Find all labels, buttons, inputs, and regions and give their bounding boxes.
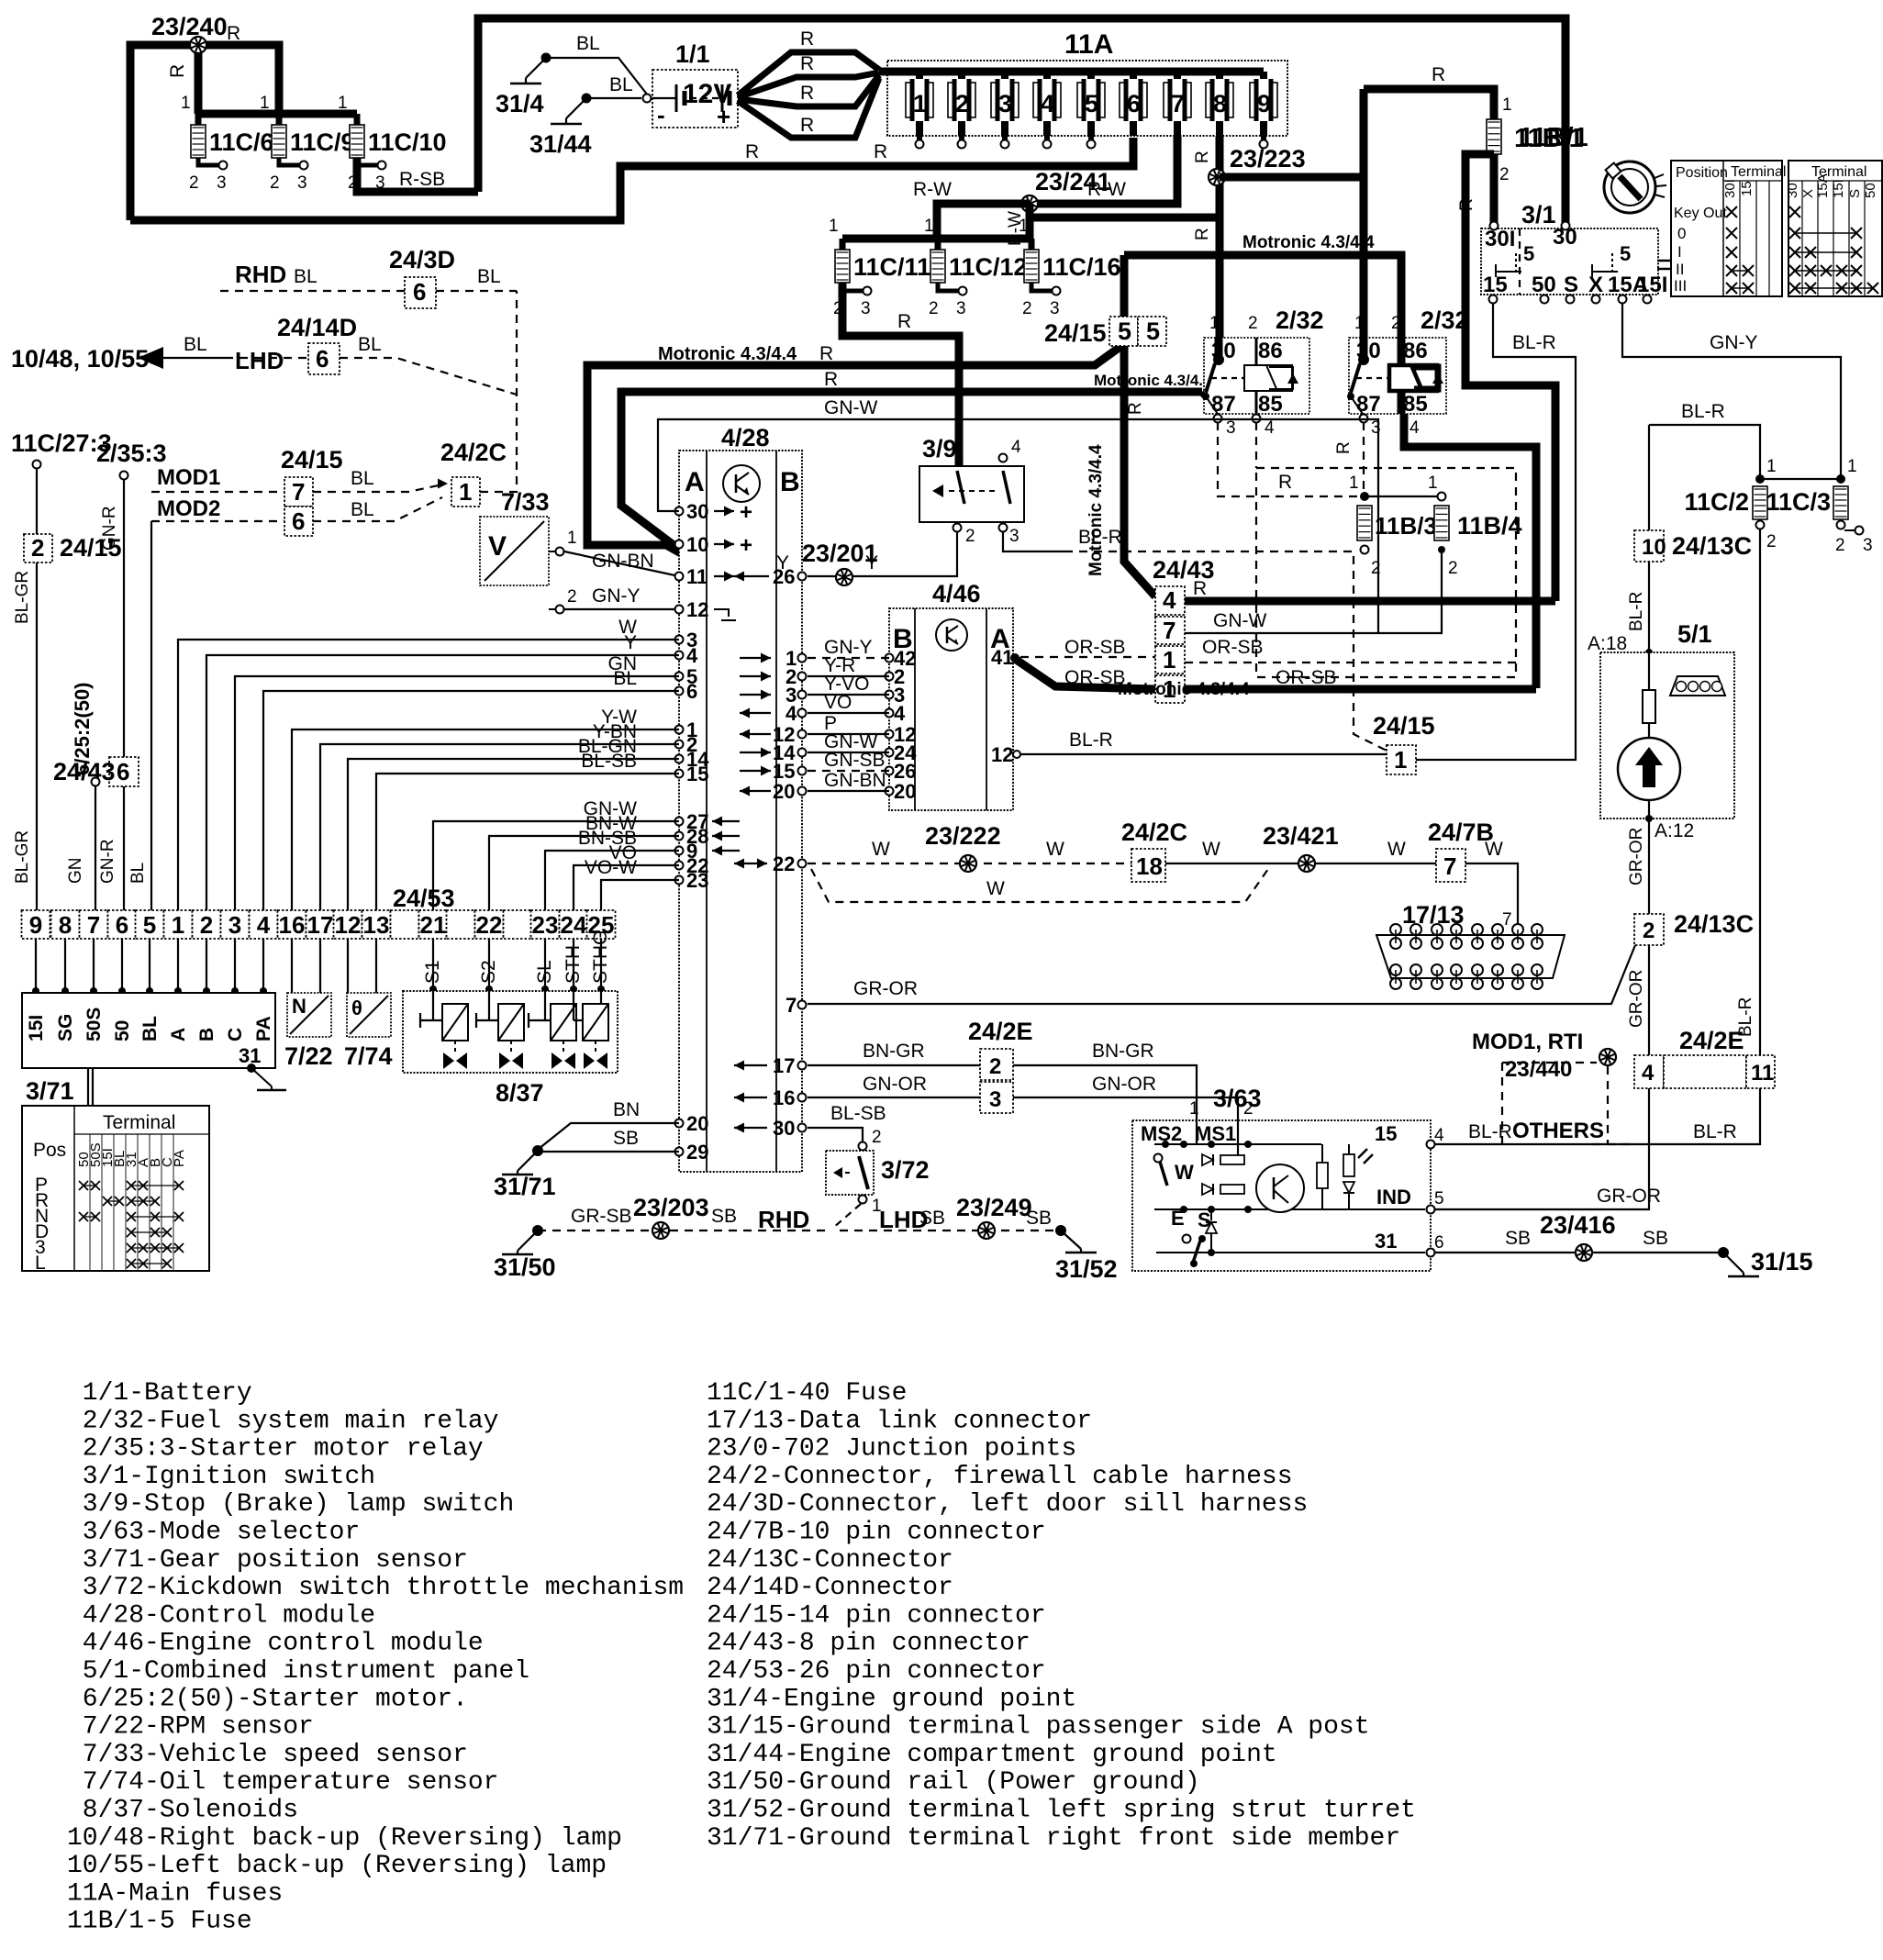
svg-text:30I: 30I (1722, 179, 1738, 198)
svg-text:3/63: 3/63 (1213, 1085, 1262, 1112)
svg-text:3/71-Gear position sensor: 3/71-Gear position sensor (67, 1546, 468, 1575)
svg-text:C: C (225, 1028, 246, 1041)
svg-text:41: 41 (991, 646, 1013, 669)
svg-text:2: 2 (872, 1128, 882, 1147)
wire 23/241 down to 11C/16 (1026, 204, 1034, 239)
svg-text:6/25:2(50): 6/25:2(50) (71, 682, 94, 775)
ground 31/44 (529, 74, 641, 158)
svg-text:L: L (35, 1253, 46, 1274)
wire GN-Y 7/33-2 (564, 585, 679, 609)
svg-text:2/32-Fuel system main relay: 2/32-Fuel system main relay (67, 1407, 498, 1435)
svg-text:1: 1 (913, 90, 927, 117)
svg-text:15A: 15A (1815, 173, 1831, 198)
fuse 11C/3 (1766, 486, 1872, 555)
kickdown switch 3/72 (826, 1128, 930, 1216)
connector 24/43 (1153, 556, 1215, 703)
wire battery feed fan R (738, 28, 879, 138)
svg-text:17: 17 (773, 1054, 795, 1077)
svg-text:V: V (488, 531, 507, 562)
fuse 11B/1 (1364, 64, 1588, 184)
svg-text:R-SB: R-SB (399, 169, 445, 190)
svg-text:12: 12 (686, 598, 708, 621)
junction 23/201 (802, 540, 878, 585)
oil temperature sensor 7/74 (344, 993, 393, 1070)
svg-text:31/71-Ground terminal right fr: 31/71-Ground terminal right front side m… (707, 1824, 1400, 1853)
svg-text:6: 6 (686, 680, 697, 703)
wire RHD dashed (220, 261, 517, 291)
wire 24/15-5 down to 24/43-4 (1086, 255, 1155, 596)
svg-text:1: 1 (829, 217, 839, 236)
data link connector 17/13 (1376, 901, 1565, 989)
svg-text:7/22-RPM sensor: 7/22-RPM sensor (67, 1713, 314, 1742)
svg-text:21: 21 (420, 911, 447, 939)
svg-text:10/48-Right back-up (Reversing: 10/48-Right back-up (Reversing) lamp (67, 1824, 622, 1853)
junction 23/241 (1021, 168, 1111, 212)
svg-text:2: 2 (1391, 314, 1401, 333)
svg-text:6: 6 (1434, 1233, 1444, 1253)
wire BL MOD2 column (128, 521, 151, 910)
svg-text:11B/1-5 Fuse: 11B/1-5 Fuse (67, 1908, 252, 1936)
wire top rail to ignition 30 (478, 18, 1565, 224)
svg-text:I: I (1677, 243, 1682, 261)
svg-text:R: R (874, 141, 887, 162)
svg-text:GR-OR: GR-OR (1597, 1186, 1661, 1207)
svg-text:24/15: 24/15 (1373, 712, 1435, 740)
svg-text:2: 2 (929, 299, 939, 318)
svg-text:10/55-Left back-up (Reversing): 10/55-Left back-up (Reversing) lamp (67, 1852, 607, 1880)
svg-text:R: R (1193, 150, 1212, 163)
svg-text:4: 4 (257, 911, 271, 939)
wires 24/53 to RPM and temp sensors (292, 939, 376, 993)
svg-text:BL: BL (294, 266, 318, 287)
svg-text:11: 11 (686, 565, 708, 588)
svg-text:24/2E: 24/2E (968, 1018, 1033, 1045)
svg-text:MOD2: MOD2 (157, 496, 220, 521)
ground 31/71 (494, 1145, 556, 1200)
svg-text:17: 17 (307, 911, 334, 939)
svg-text:12: 12 (991, 743, 1013, 766)
svg-text:85: 85 (1258, 392, 1283, 417)
svg-text:23/416: 23/416 (1540, 1211, 1616, 1239)
svg-text:11A: 11A (1064, 29, 1113, 60)
connector 24/15 pin1 (1373, 712, 1435, 774)
svg-text:20: 20 (894, 780, 916, 803)
svg-text:31/4-Engine ground point: 31/4-Engine ground point (707, 1685, 1076, 1713)
svg-text:SG: SG (55, 1014, 76, 1041)
wire fuse bus 11C/6-10 (181, 94, 357, 114)
wire R dashed relay2-87 (1334, 422, 1364, 492)
svg-text:OTHERS: OTHERS (1512, 1119, 1604, 1143)
svg-text:PA: PA (253, 1016, 274, 1041)
svg-text:1: 1 (924, 217, 934, 236)
svg-text:2/35:3-Starter motor relay: 2/35:3-Starter motor relay (67, 1435, 484, 1464)
wires 24/53 to gear sensor 3/71 (32, 939, 267, 995)
svg-text:R: R (1126, 402, 1145, 415)
svg-text:BL-R: BL-R (1468, 1121, 1512, 1142)
junction 23/416 (1540, 1211, 1616, 1261)
wire OR-SB dashed 24/43-1 (1020, 637, 1516, 663)
svg-text:Motronic 4.3/4.4: Motronic 4.3/4.4 (658, 344, 797, 364)
svg-text:1: 1 (1349, 473, 1359, 493)
svg-text:W: W (1046, 839, 1064, 860)
svg-text:15: 15 (686, 763, 708, 785)
wire GN-R 2/35:3 down (98, 480, 124, 910)
wire Motronic 4.3/4.4 rail (587, 343, 1121, 553)
svg-text:22: 22 (476, 911, 503, 939)
wire SB 3/63-31 to ground (1434, 1228, 1720, 1253)
svg-text:7: 7 (1502, 910, 1512, 930)
svg-text:8/37-Solenoids: 8/37-Solenoids (67, 1797, 298, 1825)
svg-text:2: 2 (567, 587, 577, 607)
svg-text:7: 7 (1163, 617, 1175, 644)
relay 2/32 fuel system main relay #1 (1202, 306, 1324, 438)
svg-text:2: 2 (1766, 532, 1777, 551)
svg-text:R: R (824, 369, 838, 390)
svg-text:3: 3 (1863, 536, 1873, 555)
svg-text:X: X (1588, 273, 1603, 297)
svg-text:GN-SB: GN-SB (824, 750, 886, 771)
svg-text:R: R (227, 23, 240, 44)
fuse 11A:1 (906, 72, 933, 149)
svg-text:3: 3 (228, 911, 241, 939)
svg-text:7/33: 7/33 (501, 488, 550, 516)
gear position table (22, 1106, 209, 1274)
svg-text:W: W (986, 878, 1005, 899)
mode selector 3/63 (1132, 1085, 1444, 1271)
svg-text:23/203: 23/203 (633, 1194, 709, 1221)
svg-text:II: II (1676, 261, 1684, 278)
svg-text:3/72-Kickdown switch throttle: 3/72-Kickdown switch throttle mechanism (67, 1574, 684, 1602)
connector 24/15 pins 7-6 (281, 446, 343, 536)
terminals 4/28-B (773, 565, 807, 1140)
svg-text:11C/6: 11C/6 (209, 128, 274, 156)
svg-text:7: 7 (786, 994, 797, 1017)
wire GR-OR panel to 24/13C-2 (1627, 819, 1694, 914)
svg-text:4: 4 (786, 702, 797, 725)
svg-text:31/71: 31/71 (494, 1173, 556, 1200)
svg-text:BL: BL (351, 499, 374, 520)
svg-text:5: 5 (1620, 242, 1631, 265)
wire 11C second fuse bus (829, 217, 1031, 239)
ignition key symbol (1604, 161, 1671, 269)
svg-text:11B/3: 11B/3 (1375, 512, 1437, 540)
wire MOD2 dashed (151, 496, 284, 521)
svg-text:A: A (685, 467, 705, 497)
wire 11A bus (879, 68, 1264, 76)
svg-text:W: W (1387, 839, 1406, 860)
svg-text:GR-OR: GR-OR (1627, 970, 1646, 1028)
svg-text:15I: 15I (1831, 179, 1846, 198)
svg-text:+: + (740, 533, 752, 558)
svg-text:W: W (1485, 839, 1503, 860)
wire OR-SB thick Motronic (1064, 667, 1536, 699)
svg-text:3/1-Ignition switch: 3/1-Ignition switch (67, 1463, 375, 1491)
svg-text:STH: STH (563, 945, 584, 984)
fuse 11A:5 (1077, 72, 1105, 149)
fuse 11A:6 (1120, 72, 1147, 136)
svg-text:A:18: A:18 (1588, 633, 1627, 654)
svg-text:4/46: 4/46 (932, 580, 981, 607)
node 10/48 10/55 arrow (11, 334, 225, 373)
svg-text:6: 6 (117, 758, 129, 785)
svg-text:30: 30 (1356, 339, 1381, 363)
svg-text:S2: S2 (478, 960, 499, 984)
junction 23/240 (151, 13, 240, 114)
fuse 11B/3 (1349, 473, 1437, 578)
svg-text:6: 6 (292, 507, 305, 535)
svg-text:86: 86 (1403, 339, 1428, 363)
svg-text:4/28-Control module: 4/28-Control module (67, 1601, 375, 1630)
svg-text:OR-SB: OR-SB (1064, 637, 1126, 658)
svg-text:GN-W: GN-W (824, 397, 877, 418)
svg-text:50: 50 (112, 1020, 133, 1041)
svg-text:W: W (1175, 1161, 1194, 1184)
svg-text:S: S (1564, 273, 1578, 297)
svg-text:24/13C: 24/13C (1674, 910, 1754, 938)
wire dashed 24/2C to sill harness (480, 291, 517, 492)
svg-text:1/1-Battery: 1/1-Battery (67, 1379, 252, 1408)
wire GN-OR (808, 1074, 1253, 1120)
svg-text:24/43-8 pin connector: 24/43-8 pin connector (707, 1630, 1031, 1658)
control module 4/28 (679, 424, 802, 1172)
svg-text:7: 7 (87, 911, 100, 939)
svg-text:2: 2 (1022, 299, 1032, 318)
svg-text:MS2: MS2 (1141, 1122, 1182, 1145)
svg-text:VO: VO (824, 692, 852, 713)
svg-text:SB: SB (1026, 1208, 1052, 1229)
svg-text:23: 23 (686, 869, 708, 892)
junction 23/223 (1209, 145, 1306, 185)
svg-text:4: 4 (1409, 418, 1420, 438)
svg-text:6: 6 (316, 345, 329, 373)
wire LHD dashed (225, 334, 517, 395)
svg-text:30I: 30I (1485, 227, 1515, 251)
wire 3/71 to position table (88, 1068, 93, 1106)
svg-text:MS1: MS1 (1195, 1122, 1236, 1145)
svg-text:3: 3 (989, 1087, 1001, 1112)
wire W dashed lower branch (811, 869, 1268, 902)
svg-text:23/223: 23/223 (1230, 145, 1306, 173)
svg-text:10: 10 (1642, 535, 1666, 560)
wire fuse8 down to relay 30 (1193, 136, 1220, 360)
wire BL-R 24/15 to ignition 15 (1416, 303, 1576, 760)
svg-text:1: 1 (1019, 217, 1029, 236)
svg-text:87: 87 (1356, 392, 1381, 417)
wire GN-Y ignition 15A (1622, 303, 1841, 475)
svg-text:BL: BL (576, 33, 600, 54)
svg-text:5: 5 (1523, 242, 1534, 265)
svg-text:GN-BN: GN-BN (592, 551, 654, 572)
wire GR-OR long to module B7 (808, 945, 1646, 1028)
fusebox 11A (887, 29, 1287, 136)
vehicle speed sensor 7/33 (480, 488, 577, 614)
wire GN-W 11B/4 to 24/43-7 (1185, 550, 1442, 633)
wire main feed loop top-left (130, 45, 279, 220)
wire BL-R down right side (1736, 529, 1760, 1055)
svg-text:OR-SB: OR-SB (1202, 637, 1264, 658)
svg-text:R: R (1193, 578, 1207, 599)
svg-text:11C/12: 11C/12 (949, 253, 1028, 281)
svg-text:23/0-702 Junction points: 23/0-702 Junction points (707, 1435, 1076, 1464)
svg-text:Y: Y (776, 552, 789, 574)
svg-text:23/241: 23/241 (1035, 168, 1111, 195)
svg-text:1: 1 (459, 478, 472, 506)
svg-text:24/3D: 24/3D (389, 246, 455, 273)
svg-text:3/72: 3/72 (881, 1156, 930, 1184)
svg-text:BN-GR: BN-GR (1092, 1041, 1154, 1062)
svg-text:2: 2 (1643, 919, 1655, 943)
solenoids 8/37 (403, 991, 618, 1107)
svg-text:24/14D-Connector: 24/14D-Connector (707, 1574, 953, 1602)
svg-text:BL: BL (139, 1016, 161, 1041)
wire fuse7 R-W to 23/241 (913, 136, 1177, 246)
connector 24/43 pin6 (53, 757, 139, 786)
svg-text:LHD: LHD (235, 347, 284, 374)
svg-text:VO-W: VO-W (585, 857, 637, 878)
connector 24/15 5-5 (1044, 317, 1166, 347)
svg-text:9: 9 (29, 911, 42, 939)
svg-text:6: 6 (1127, 90, 1141, 117)
svg-text:11C/9: 11C/9 (290, 128, 355, 156)
svg-text:24/13C: 24/13C (1672, 532, 1752, 560)
stop lamp switch 3/9 (919, 435, 1024, 546)
svg-text:85: 85 (1403, 392, 1428, 417)
svg-text:1: 1 (1209, 314, 1220, 333)
svg-text:A:12: A:12 (1655, 820, 1694, 841)
wire R-W branch to 11C/12 (937, 204, 1030, 239)
svg-text:1: 1 (338, 94, 348, 113)
svg-text:7/22: 7/22 (284, 1042, 333, 1070)
connector 24/2E (1634, 1027, 1775, 1088)
svg-text:11C/16: 11C/16 (1042, 253, 1121, 281)
svg-text:4: 4 (1041, 90, 1054, 117)
connector 24/13C pin2 (1634, 910, 1754, 945)
svg-text:3/9: 3/9 (922, 435, 957, 462)
wire BN-GR (808, 1041, 1199, 1120)
svg-text:23/240: 23/240 (151, 13, 228, 40)
svg-text:31: 31 (1375, 1230, 1397, 1253)
svg-text:24/2-Connector, firewall cable: 24/2-Connector, firewall cable harness (707, 1463, 1293, 1491)
RPM sensor 7/22 (284, 993, 333, 1070)
svg-text:3: 3 (998, 90, 1012, 117)
fuse 11C/16 (1022, 239, 1121, 318)
svg-text:11C/3: 11C/3 (1766, 488, 1831, 516)
svg-text:RHD: RHD (758, 1206, 809, 1233)
wire 3/9-3 BL-R (1003, 532, 1064, 551)
svg-text:BL-R: BL-R (1627, 592, 1646, 631)
svg-text:-: - (657, 101, 665, 128)
svg-text:2: 2 (270, 173, 280, 193)
battery 1/1 (643, 40, 739, 130)
svg-text:BL: BL (358, 334, 382, 355)
svg-text:16: 16 (279, 911, 306, 939)
svg-text:+: + (717, 103, 730, 130)
svg-text:SB: SB (1643, 1228, 1668, 1249)
svg-text:BL: BL (128, 863, 148, 884)
wire GN-W speedometer (658, 397, 1378, 633)
svg-text:2: 2 (955, 90, 969, 117)
svg-text:R: R (1278, 472, 1292, 493)
wires 24/53 to solenoids 8/37 (422, 930, 611, 993)
svg-text:31/4: 31/4 (496, 90, 544, 117)
svg-text:2/32: 2/32 (1276, 306, 1324, 334)
wire W 24/2C to 24/7B (1165, 839, 1436, 863)
wire BL-SB to kickdown (808, 1103, 886, 1151)
svg-text:R: R (800, 28, 814, 50)
svg-text:OR-SB: OR-SB (1276, 667, 1337, 688)
svg-text:B: B (196, 1028, 217, 1041)
svg-text:1: 1 (1428, 473, 1438, 493)
svg-text:R: R (800, 53, 814, 74)
svg-text:5/1-Combined instrument panel: 5/1-Combined instrument panel (67, 1657, 529, 1686)
svg-text:29: 29 (686, 1141, 708, 1164)
svg-text:GN-R: GN-R (100, 506, 119, 551)
svg-text:1: 1 (567, 529, 577, 548)
junction 23/203 (652, 1222, 669, 1239)
wire SB A29 to ground (539, 1128, 679, 1152)
svg-text:BL: BL (351, 468, 374, 489)
wire relay2-85 OR-SB to firewall (1404, 414, 1536, 688)
svg-text:1: 1 (1189, 1099, 1199, 1119)
svg-text:BL-R: BL-R (1693, 1121, 1737, 1142)
svg-text:Motronic 4.3/4.4: Motronic 4.3/4.4 (1242, 233, 1375, 252)
svg-text:9: 9 (1257, 90, 1271, 117)
svg-text:15I: 15I (26, 1015, 47, 1041)
svg-text:2: 2 (965, 527, 975, 546)
svg-text:24: 24 (561, 911, 587, 939)
svg-text:86: 86 (1258, 339, 1283, 363)
svg-text:17/13-Data link connector: 17/13-Data link connector (707, 1407, 1092, 1435)
svg-text:4: 4 (686, 644, 698, 667)
svg-text:+: + (740, 500, 752, 525)
svg-text:RHD: RHD (235, 261, 286, 288)
svg-text:2: 2 (989, 1054, 1001, 1079)
wire OR-SB thick 4/46-A41 (1015, 659, 1155, 689)
svg-text:6: 6 (116, 911, 128, 939)
wire BL-R 24/2E-11 to mode selector (1431, 1088, 1760, 1144)
svg-text:24/2E: 24/2E (1679, 1027, 1744, 1054)
wire BL-R dashed (1064, 527, 1387, 751)
node 6/25:2(50) starter motor (66, 682, 100, 910)
svg-text:N: N (292, 995, 306, 1018)
terminals 4/28-A (675, 500, 710, 1164)
svg-text:SL: SL (534, 960, 555, 984)
svg-text:GN-Y: GN-Y (592, 585, 641, 607)
svg-text:Terminal: Terminal (1731, 164, 1786, 180)
svg-text:1: 1 (181, 94, 191, 113)
svg-text:50: 50 (1863, 183, 1878, 198)
wire BN A20 to ground (539, 1099, 679, 1149)
svg-text:GN-W: GN-W (1213, 610, 1266, 631)
svg-text:R: R (897, 311, 911, 332)
combined instrument panel 5/1 (1600, 620, 1734, 822)
svg-text:11A-Main fuses: 11A-Main fuses (67, 1879, 283, 1908)
connector 24/2C pin1 (440, 439, 507, 507)
svg-text:23/440: 23/440 (1505, 1057, 1572, 1082)
svg-text:13: 13 (363, 911, 390, 939)
svg-text:S1: S1 (422, 960, 443, 984)
wire R to firewall connector 24/43 (1465, 154, 1555, 601)
svg-text:4/28: 4/28 (721, 424, 770, 451)
svg-text:2: 2 (31, 534, 44, 562)
connector 24/14D (277, 314, 357, 374)
svg-text:Key Out: Key Out (1674, 206, 1727, 221)
fuse 11C/10 (348, 114, 447, 193)
svg-text:31/15: 31/15 (1751, 1248, 1813, 1275)
svg-text:15: 15 (1739, 181, 1755, 196)
wire GR-SB RHD LHD dashed (538, 1194, 1061, 1233)
svg-text:11: 11 (1751, 1061, 1774, 1086)
